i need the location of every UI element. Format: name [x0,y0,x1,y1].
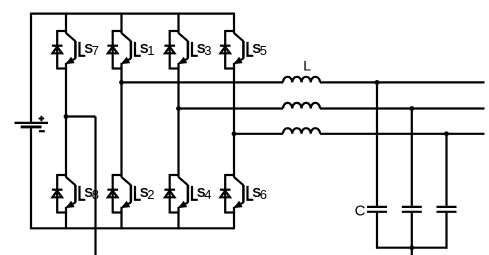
junction node: leg 3 phase B tap [176,106,181,111]
capacitor C3 bottom plate [437,211,457,213]
battery plus sign [39,116,45,122]
wire: leg 2 bottom lead [120,213,122,230]
junction node: leg 1 neutral tap [64,114,69,119]
wire: left rail lower (battery - down to bottom rail) [30,128,32,229]
wire: capacitor bottom bus [376,247,448,249]
capacitor C2 bottom plate [402,211,422,213]
wire: leg 1 bottom lead [65,213,67,230]
svg-text:S4: S4 [197,185,212,202]
wire: leg 4 middle (S5 to S6) [233,69,235,176]
wire: leg 3 bottom lead [177,213,179,230]
wire: leg 2 middle (S1 to S2) [120,69,122,176]
IGBT switch S8 [52,174,85,214]
wire: leg 4 bottom lead [233,213,235,230]
wire: capacitor branch B lower [411,213,413,255]
wire: phase B after inductor to right edge [320,107,485,109]
svg-text:S7: S7 [84,41,99,58]
IGBT switch S1 [107,30,140,70]
junction node: leg 4 phase C tap [232,131,237,136]
battery minus sign [39,130,45,132]
wire: bottom DC rail [31,227,234,229]
svg-text:S2: S2 [140,185,155,202]
svg-text:S1: S1 [140,41,155,58]
junction node: capacitor bus center [409,245,414,250]
svg-text:C: C [355,203,366,220]
capacitor C1 top plate [367,206,387,208]
battery positive plate (long) [15,122,49,124]
capacitor C3 top plate [437,206,457,208]
wire: phase A after inductor to right edge [320,81,485,83]
wire: left rail upper (top rail down to battery +) [30,13,32,122]
inductor L phase C [283,128,320,134]
inductor L phase A [283,77,320,83]
wire: leg 3 top lead [177,13,179,31]
wire: capacitor branch A upper [376,82,378,205]
wire: phase B from leg 3 to inductor [179,107,284,109]
capacitor C1 bottom plate [367,211,387,213]
IGBT switch S3 [164,30,197,70]
wire: neutral horizontal from leg 1 midpoint [66,115,96,117]
wire: phase A from leg 2 to inductor [122,81,284,83]
wire: top DC rail [31,13,234,15]
wire: leg 1 top lead [65,13,67,31]
svg-text:S8: S8 [84,185,99,202]
wire: capacitor branch B upper [411,109,413,206]
battery negative plate (short, thick) [21,125,42,128]
wire: phase C after inductor to right edge [320,133,485,135]
wire: capacitor branch C lower [445,213,447,249]
junction node: leg 2 phase A tap [119,80,124,85]
svg-text:S3: S3 [197,41,212,58]
wire: capacitor branch C upper [445,134,447,206]
wire: neutral vertical down and out of image [94,117,96,255]
inductor L phase B [283,103,320,109]
junction node: phase B capacitor tap [409,106,414,111]
wire: leg 3 middle (S3 to S4) [177,69,179,176]
wire: leg 1 middle (S7 to S8) [65,69,67,176]
junction node: phase A capacitor tap [375,80,380,85]
wire: capacitor branch A lower [376,213,378,249]
IGBT switch S7 [52,30,85,70]
IGBT switch S2 [107,174,140,214]
IGBT switch S4 [164,174,197,214]
wire: phase C from leg 4 to inductor [234,133,283,135]
wire: leg 2 top lead [120,13,122,31]
IGBT switch S6 [220,174,253,214]
capacitor C2 top plate [402,206,422,208]
junction node: phase C capacitor tap [444,131,449,136]
IGBT switch S5 [220,30,253,70]
svg-text:L: L [303,58,311,74]
svg-text:S6: S6 [252,185,267,202]
svg-text:S5: S5 [252,41,267,58]
wire: leg 4 top lead [233,13,235,31]
